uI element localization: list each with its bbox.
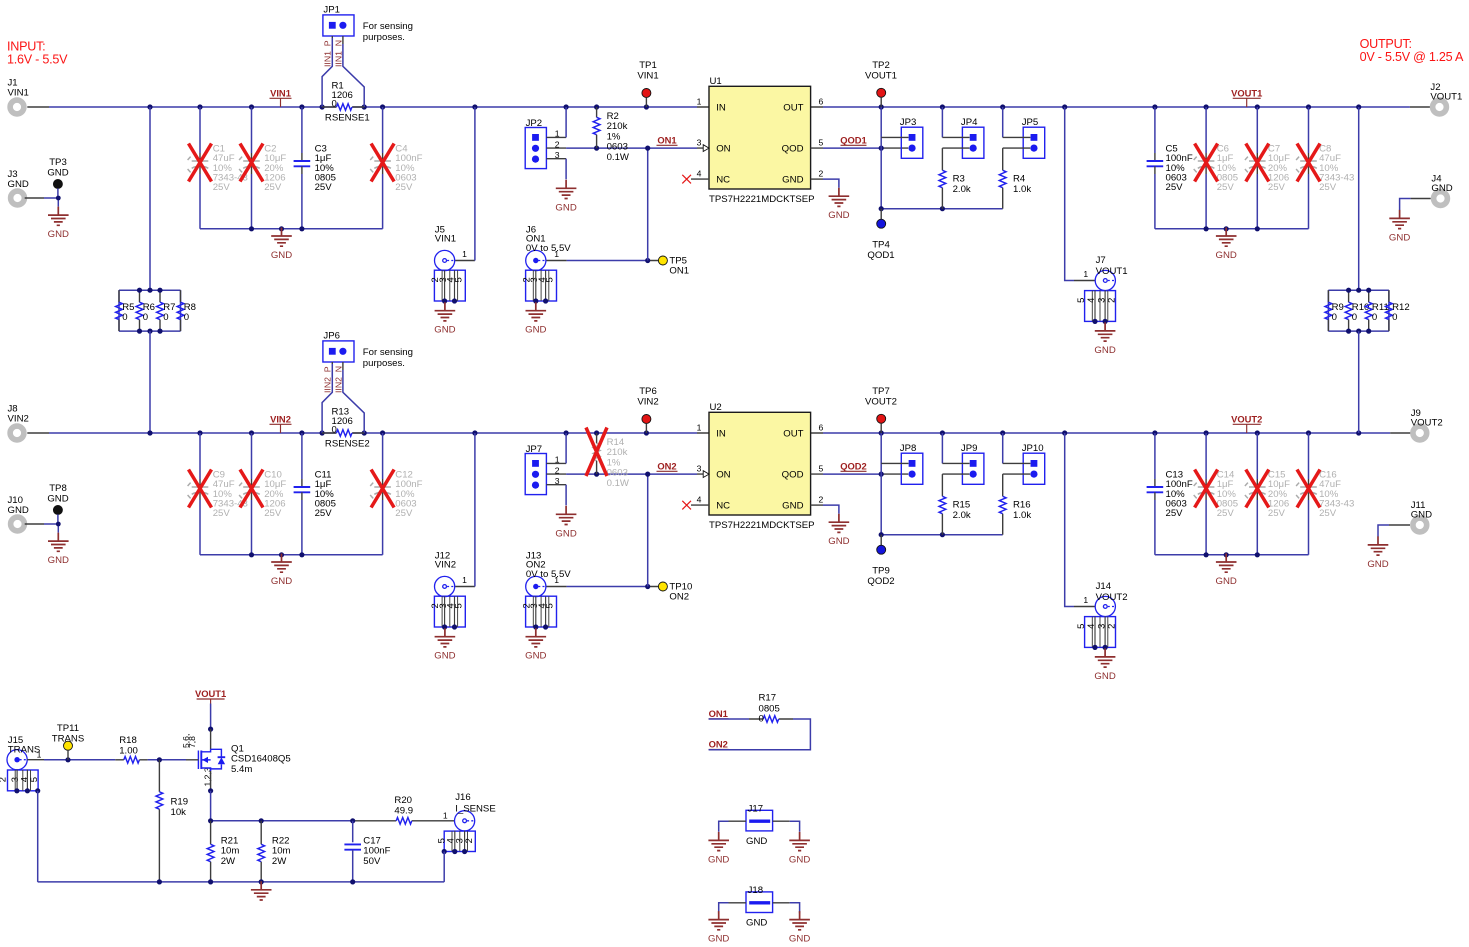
svg-text:TPS7H2221MDCKTSEP: TPS7H2221MDCKTSEP xyxy=(709,194,815,205)
resistor R1 (RSENSE) xyxy=(322,81,370,124)
wire VIN2 stubs xyxy=(27,432,709,434)
wire JP1 pin1 to main xyxy=(331,36,333,38)
wire QOD1 line xyxy=(811,147,909,149)
svg-text:RSENSE2: RSENSE2 xyxy=(325,439,370,450)
wire JP4 pin2 xyxy=(942,147,969,149)
wire Q1 source node xyxy=(210,771,212,791)
svg-text:2.0k: 2.0k xyxy=(953,510,971,521)
svg-text:25V: 25V xyxy=(395,508,413,519)
svg-text:2: 2 xyxy=(1105,298,1116,303)
capacitor C5 xyxy=(1147,107,1193,229)
svg-text:QOD: QOD xyxy=(782,144,804,155)
ground J5 xyxy=(434,302,455,336)
svg-text:NC: NC xyxy=(716,175,730,186)
DNP cross R14 xyxy=(586,428,607,477)
junction dots R5-R8 xyxy=(137,288,163,334)
jumper JP1 xyxy=(323,4,354,36)
svg-text:TP1: TP1 xyxy=(639,60,657,71)
wire QOD2 riser xyxy=(881,433,1003,535)
svg-text:TP9: TP9 xyxy=(872,566,890,577)
wire VIN1 stubs xyxy=(27,106,709,108)
svg-text:5: 5 xyxy=(28,777,39,782)
capacitor C16 xyxy=(1296,433,1354,555)
wire output caps rail xyxy=(1155,554,1309,556)
wire ON2 line xyxy=(546,473,709,475)
wire QOD2 line xyxy=(811,473,909,475)
svg-text:25V: 25V xyxy=(264,508,282,519)
svg-text:25V: 25V xyxy=(1319,182,1337,193)
connector J4 (GND) xyxy=(1431,174,1452,206)
svg-text:0V - 5.5V @ 1.25 A: 0V - 5.5V @ 1.25 A xyxy=(1360,50,1464,64)
resistor R4 xyxy=(999,148,1031,209)
DNP cross C6 xyxy=(1195,144,1218,182)
text OUTPUT header xyxy=(1360,37,1464,64)
wire J3/TP3 to ground xyxy=(25,197,44,199)
capacitor C1 xyxy=(188,107,248,229)
svg-text:IIN1_P: IIN1_P xyxy=(323,40,333,67)
resistor R10 xyxy=(1345,290,1369,331)
svg-text:TRANS: TRANS xyxy=(52,733,85,744)
svg-text:GND: GND xyxy=(555,202,576,213)
ground U2 GND pin xyxy=(828,514,849,548)
resistor R22 xyxy=(258,821,291,882)
svg-text:0: 0 xyxy=(332,424,337,435)
svg-text:ON1: ON1 xyxy=(657,135,676,146)
svg-text:GND: GND xyxy=(1094,671,1115,682)
svg-text:GND: GND xyxy=(434,325,455,336)
testpoint TP5 (ON1) xyxy=(658,255,689,276)
wire VOUT1 stubs xyxy=(811,106,1430,108)
connector J1 (VIN1) xyxy=(8,78,29,114)
svg-text:25V: 25V xyxy=(213,508,231,519)
wire J13 pin1 to TP xyxy=(546,586,658,588)
svg-text:GND: GND xyxy=(555,528,576,539)
jumper JP9 xyxy=(961,443,984,484)
svg-text:1: 1 xyxy=(462,575,467,585)
wire ON1 line xyxy=(546,147,709,149)
ground J4 xyxy=(1389,210,1410,244)
svg-text:R17: R17 xyxy=(759,693,777,704)
svg-text:GND: GND xyxy=(708,854,729,865)
capacitor C2 xyxy=(239,107,286,229)
capacitor C6 xyxy=(1194,107,1238,229)
svg-text:OUT: OUT xyxy=(783,429,803,440)
svg-text:1: 1 xyxy=(37,749,42,759)
pin U2 NC no-connect xyxy=(682,501,709,510)
svg-text:GND: GND xyxy=(1367,559,1388,570)
svg-text:QOD1: QOD1 xyxy=(867,250,894,261)
junction dots output caps rail xyxy=(1204,552,1260,557)
svg-text:VIN2: VIN2 xyxy=(8,414,29,425)
svg-text:TPS7H2221MDCKTSEP: TPS7H2221MDCKTSEP xyxy=(709,520,815,531)
net label ON1 (R17) xyxy=(709,708,729,719)
connector J11 (GND) xyxy=(1411,500,1432,532)
svg-text:GND: GND xyxy=(525,325,546,336)
svg-text:GND: GND xyxy=(1389,232,1410,243)
svg-text:J17: J17 xyxy=(748,803,763,814)
wire JP10 pin2 xyxy=(1003,473,1030,475)
svg-text:ON2: ON2 xyxy=(669,592,689,603)
svg-text:2: 2 xyxy=(819,495,824,505)
junction dots sense rail xyxy=(208,818,355,823)
resistor R21 xyxy=(207,821,239,882)
jumper JP5 xyxy=(1022,117,1045,158)
testpoint TP9 (QOD2) xyxy=(867,535,894,588)
net label ON2 (R17) xyxy=(709,739,729,750)
connector J6 (ON1) xyxy=(520,250,556,303)
svg-text:TP6: TP6 xyxy=(639,386,657,397)
ground U1 GND pin xyxy=(828,188,849,222)
svg-text:OUT: OUT xyxy=(783,103,803,114)
capacitor C14 xyxy=(1194,433,1238,555)
svg-text:25V: 25V xyxy=(315,182,333,193)
svg-text:GND: GND xyxy=(789,854,810,865)
svg-text:NC: NC xyxy=(716,501,730,512)
wire JP4 pin1 riser xyxy=(941,107,943,137)
svg-text:TP4: TP4 xyxy=(872,240,890,251)
wire bottom ground rail xyxy=(38,881,445,883)
connector J9 (VOUT2) xyxy=(1411,408,1443,440)
resistor R6 xyxy=(136,290,155,331)
connector J7 (VOUT1) xyxy=(1075,270,1117,324)
wire VOUT1 main xyxy=(823,106,1410,108)
svg-text:JP8: JP8 xyxy=(900,443,917,454)
net label ON2 xyxy=(657,461,678,472)
ground input caps xyxy=(271,554,292,588)
svg-text:3: 3 xyxy=(697,464,702,474)
wire J11 to ground xyxy=(1389,524,1410,526)
testpoint TP6 (VIN2) xyxy=(637,386,658,433)
wire J6 pin1 to TP xyxy=(546,260,658,262)
svg-text:GND: GND xyxy=(828,210,849,221)
connector J8 (VIN2) xyxy=(8,404,29,440)
ground J3/TP3 xyxy=(48,207,69,241)
resistor R15 xyxy=(939,474,971,535)
pin U1 NC no-connect xyxy=(682,175,709,184)
svg-text:VIN1: VIN1 xyxy=(435,234,456,245)
jumper J18 (GND-GND) xyxy=(746,885,773,929)
svg-text:GND: GND xyxy=(1094,345,1115,356)
svg-text:GND: GND xyxy=(48,229,69,240)
wire J14 pin1 riser xyxy=(1065,433,1074,607)
ground JP7 pin3 xyxy=(555,506,576,540)
transistor Q1 CSD16408Q5 xyxy=(198,743,290,775)
svg-text:25V: 25V xyxy=(1166,508,1184,519)
svg-text:0: 0 xyxy=(759,714,764,725)
DNP cross C1 xyxy=(189,144,212,182)
jumper JP10 xyxy=(1022,443,1045,484)
svg-text:VOUT1: VOUT1 xyxy=(1231,88,1262,99)
testpoint TP1 (VIN1) xyxy=(637,60,658,107)
connector J15 (TRANS) xyxy=(0,750,40,794)
wire J16 to rail xyxy=(443,852,445,882)
svg-text:0: 0 xyxy=(1352,312,1357,323)
svg-text:4: 4 xyxy=(697,495,702,505)
svg-text:ON1: ON1 xyxy=(709,708,728,719)
svg-text:JP3: JP3 xyxy=(900,117,917,128)
svg-text:J7: J7 xyxy=(1096,255,1106,266)
svg-text:ON: ON xyxy=(716,470,730,481)
wire J18 right to ground xyxy=(773,902,790,904)
svg-text:VOUT2: VOUT2 xyxy=(1096,592,1128,603)
svg-text:1: 1 xyxy=(1083,595,1088,605)
svg-text:JP7: JP7 xyxy=(526,444,543,455)
resistor R18 xyxy=(115,735,147,763)
svg-text:0: 0 xyxy=(184,312,189,323)
DNP cross C16 xyxy=(1297,470,1320,508)
wire JP9 pin1 riser xyxy=(941,433,943,463)
ground J7 xyxy=(1094,322,1115,356)
ground J18 right xyxy=(789,911,810,945)
svg-text:1: 1 xyxy=(462,249,467,259)
resistor R3 xyxy=(939,148,971,209)
svg-text:VIN2: VIN2 xyxy=(270,414,291,425)
svg-text:VOUT1: VOUT1 xyxy=(865,71,897,82)
svg-text:INPUT:: INPUT: xyxy=(7,39,45,53)
wire R9-R12 rails xyxy=(1328,290,1389,331)
connector J14 (VOUT2) xyxy=(1075,596,1117,650)
svg-text:ON: ON xyxy=(716,144,730,155)
svg-text:purposes.: purposes. xyxy=(363,358,405,369)
svg-text:1: 1 xyxy=(697,97,702,107)
svg-text:3: 3 xyxy=(697,138,702,148)
svg-text:JP6: JP6 xyxy=(323,330,340,341)
svg-text:0: 0 xyxy=(1332,312,1337,323)
svg-text:2: 2 xyxy=(1105,624,1116,629)
testpoint TP10 (ON2) xyxy=(658,581,692,602)
svg-text:VOUT2: VOUT2 xyxy=(1231,414,1262,425)
svg-text:GND: GND xyxy=(271,250,292,261)
junction dots input caps rail xyxy=(249,552,305,557)
capacitor C13 xyxy=(1147,433,1193,555)
wire U2 GND pin to ground xyxy=(811,504,823,506)
junction dots R9-R12 xyxy=(1346,288,1371,334)
svg-text:JP1: JP1 xyxy=(323,4,340,15)
wire sense rail xyxy=(211,820,353,822)
svg-text:VIN1: VIN1 xyxy=(8,88,29,99)
svg-text:10k: 10k xyxy=(171,807,187,818)
svg-text:GND: GND xyxy=(1216,576,1237,587)
wire output caps rail xyxy=(1155,228,1309,230)
jumper JP6 xyxy=(323,330,354,362)
ground J14 xyxy=(1094,648,1115,682)
wire R5-R8 rails xyxy=(119,290,181,331)
svg-text:2: 2 xyxy=(0,777,8,782)
svg-text:VIN1: VIN1 xyxy=(270,88,291,99)
svg-text:VOUT2: VOUT2 xyxy=(1411,418,1443,429)
DNP cross C4 xyxy=(371,144,394,182)
wire JP7 pin1 to main xyxy=(546,462,566,464)
wire J10/TP8 to ground xyxy=(25,523,44,525)
svg-text:25V: 25V xyxy=(1268,508,1286,519)
svg-text:RSENSE1: RSENSE1 xyxy=(325,113,370,124)
svg-text:GND: GND xyxy=(746,918,767,929)
DNP cross C12 xyxy=(371,470,394,508)
DNP cross C10 xyxy=(240,470,263,508)
svg-text:0V to 5.5V: 0V to 5.5V xyxy=(526,243,571,254)
svg-text:ON1: ON1 xyxy=(669,266,689,277)
net label VIN2 xyxy=(270,414,292,434)
net label VOUT2 xyxy=(1231,414,1262,434)
svg-text:TP3: TP3 xyxy=(49,157,67,168)
svg-text:VOUT2: VOUT2 xyxy=(865,397,897,408)
connector J10 (GND) xyxy=(8,495,29,531)
svg-text:VIN1: VIN1 xyxy=(637,71,658,82)
svg-text:For sensing: For sensing xyxy=(363,21,413,32)
junction dots input caps rail xyxy=(249,226,305,231)
wire JP6 pin2 to main xyxy=(342,362,344,370)
svg-text:0: 0 xyxy=(163,312,168,323)
DNP cross C8 xyxy=(1297,144,1320,182)
jumper JP3 xyxy=(900,117,923,158)
DNP cross C7 xyxy=(1246,144,1269,182)
svg-text:U1: U1 xyxy=(710,76,722,87)
wire VOUT2 stubs xyxy=(811,432,1411,434)
connector J3 (GND) xyxy=(8,169,29,205)
DNP cross C2 xyxy=(240,144,263,182)
junction dots ON1 line xyxy=(594,146,650,151)
DNP cross C14 xyxy=(1195,470,1218,508)
op-amp-IC U2 TPS7H2221MDCKTSEP xyxy=(697,402,824,531)
svg-text:49.9: 49.9 xyxy=(394,806,413,817)
wire ON1 to TP riser xyxy=(647,148,649,260)
svg-text:25V: 25V xyxy=(1217,508,1235,519)
wire J17 right to ground xyxy=(773,820,790,822)
wire U1 GND pin to ground xyxy=(811,178,823,180)
capacitor C10 xyxy=(239,433,286,555)
junction dots ON2 line xyxy=(594,472,650,477)
svg-text:OUTPUT:: OUTPUT: xyxy=(1360,37,1412,51)
svg-text:0: 0 xyxy=(1392,312,1397,323)
resistor R13 (RSENSE) xyxy=(322,407,370,450)
wire J18 left to ground xyxy=(729,902,747,904)
ground JP2 pin3 xyxy=(555,180,576,214)
svg-text:5.4m: 5.4m xyxy=(231,764,252,775)
wire JP1 pin2 to main xyxy=(342,36,344,44)
svg-text:5: 5 xyxy=(819,464,824,474)
svg-text:GND: GND xyxy=(1411,510,1432,521)
ground J17 right xyxy=(789,832,810,866)
resistor R2 xyxy=(593,107,630,163)
svg-text:JP4: JP4 xyxy=(961,117,978,128)
jumper JP7 xyxy=(525,444,560,495)
svg-text:25V: 25V xyxy=(213,182,231,193)
svg-text:GND: GND xyxy=(782,501,803,512)
svg-text:1.0k: 1.0k xyxy=(1013,510,1031,521)
wire J15 pin1 to gate xyxy=(27,759,198,761)
svg-text:ON2: ON2 xyxy=(657,461,676,472)
svg-text:6: 6 xyxy=(819,423,824,433)
wire J5 pin1 to main xyxy=(455,260,475,262)
jumper JP2 xyxy=(525,118,560,169)
svg-text:6: 6 xyxy=(819,97,824,107)
svg-text:GND: GND xyxy=(8,179,29,190)
svg-text:For sensing: For sensing xyxy=(363,347,413,358)
capacitor C7 xyxy=(1245,107,1290,229)
testpoint TP4 (QOD1) xyxy=(867,209,894,262)
ground J17 left xyxy=(708,832,729,866)
junction dots VOUT1 main xyxy=(879,104,1362,109)
svg-text:QOD: QOD xyxy=(782,470,804,481)
svg-text:GND: GND xyxy=(271,576,292,587)
svg-text:25V: 25V xyxy=(315,508,333,519)
svg-text:GND: GND xyxy=(1431,183,1452,194)
jumper JP8 xyxy=(900,443,923,484)
svg-text:25V: 25V xyxy=(1217,182,1235,193)
connector J2 (VOUT1) xyxy=(1430,82,1462,114)
wire ON2 to TP riser xyxy=(647,474,649,586)
svg-text:0: 0 xyxy=(122,312,127,323)
ground input caps xyxy=(271,228,292,262)
resistor R5 xyxy=(116,290,135,331)
svg-text:VIN2: VIN2 xyxy=(435,560,456,571)
svg-text:2W: 2W xyxy=(221,856,236,867)
svg-text:25V: 25V xyxy=(1319,508,1337,519)
resistor R14 xyxy=(593,433,630,489)
junction dot TP11 node xyxy=(65,757,70,762)
svg-text:1: 1 xyxy=(1083,269,1088,279)
svg-text:JP9: JP9 xyxy=(961,443,978,454)
wire J15 pins to rail xyxy=(37,791,39,882)
wire JP2 pin3 to ground xyxy=(546,158,566,160)
DNP cross C9 xyxy=(189,470,212,508)
wire J12 pin1 to main xyxy=(455,586,475,588)
svg-text:GND: GND xyxy=(828,536,849,547)
junction dots QOD2 rail xyxy=(879,532,945,537)
wire VOUT1 to Q1 drain xyxy=(210,704,212,730)
svg-text:VOUT1: VOUT1 xyxy=(195,688,226,699)
svg-text:IN: IN xyxy=(716,103,726,114)
svg-text:5: 5 xyxy=(819,138,824,148)
connector J13 (ON2) xyxy=(520,576,556,629)
junction dots bottom rail xyxy=(157,879,356,884)
net label VOUT1 xyxy=(1231,88,1262,108)
resistor R9 xyxy=(1325,290,1344,331)
testpoint TP3 (GND) xyxy=(47,157,68,188)
svg-text:7,8: 7,8 xyxy=(187,736,197,748)
capacitor C12 xyxy=(370,433,422,555)
net label QOD1 xyxy=(840,135,867,146)
svg-text:2W: 2W xyxy=(272,856,287,867)
wire input caps rail xyxy=(200,228,383,230)
wire JP3 pin1 xyxy=(881,136,908,138)
ground J10/TP8 xyxy=(48,533,69,567)
connector J16 (I_SENSE) xyxy=(435,811,475,854)
ground output caps xyxy=(1216,554,1237,588)
svg-text:0V to 5.5V: 0V to 5.5V xyxy=(526,569,571,580)
svg-text:0: 0 xyxy=(1372,312,1377,323)
resistor R12 xyxy=(1386,290,1410,331)
svg-text:TRANS: TRANS xyxy=(8,745,41,756)
capacitor C4 xyxy=(370,107,422,229)
wire J17 left to ground xyxy=(729,820,747,822)
svg-text:5: 5 xyxy=(1075,624,1086,629)
svg-text:2.0k: 2.0k xyxy=(953,184,971,195)
net label VOUT1 (Q1 drain) xyxy=(195,688,226,703)
svg-text:IIN1_N: IIN1_N xyxy=(333,40,343,67)
junction dots VIN2 main xyxy=(147,430,649,435)
wire J7 pin1 riser xyxy=(1065,107,1074,281)
connector J5 (VIN1) xyxy=(429,250,465,303)
svg-text:25V: 25V xyxy=(1166,182,1184,193)
svg-text:QOD1: QOD1 xyxy=(840,135,867,146)
wire JP7 pin3 to ground xyxy=(546,484,566,486)
jumper JP4 xyxy=(961,117,984,158)
svg-text:50V: 50V xyxy=(363,856,381,867)
svg-text:TP2: TP2 xyxy=(872,60,890,71)
wire VOUT1-VOUT2 link riser top xyxy=(1358,107,1360,290)
wire JP5 pin1 riser xyxy=(1002,107,1004,137)
